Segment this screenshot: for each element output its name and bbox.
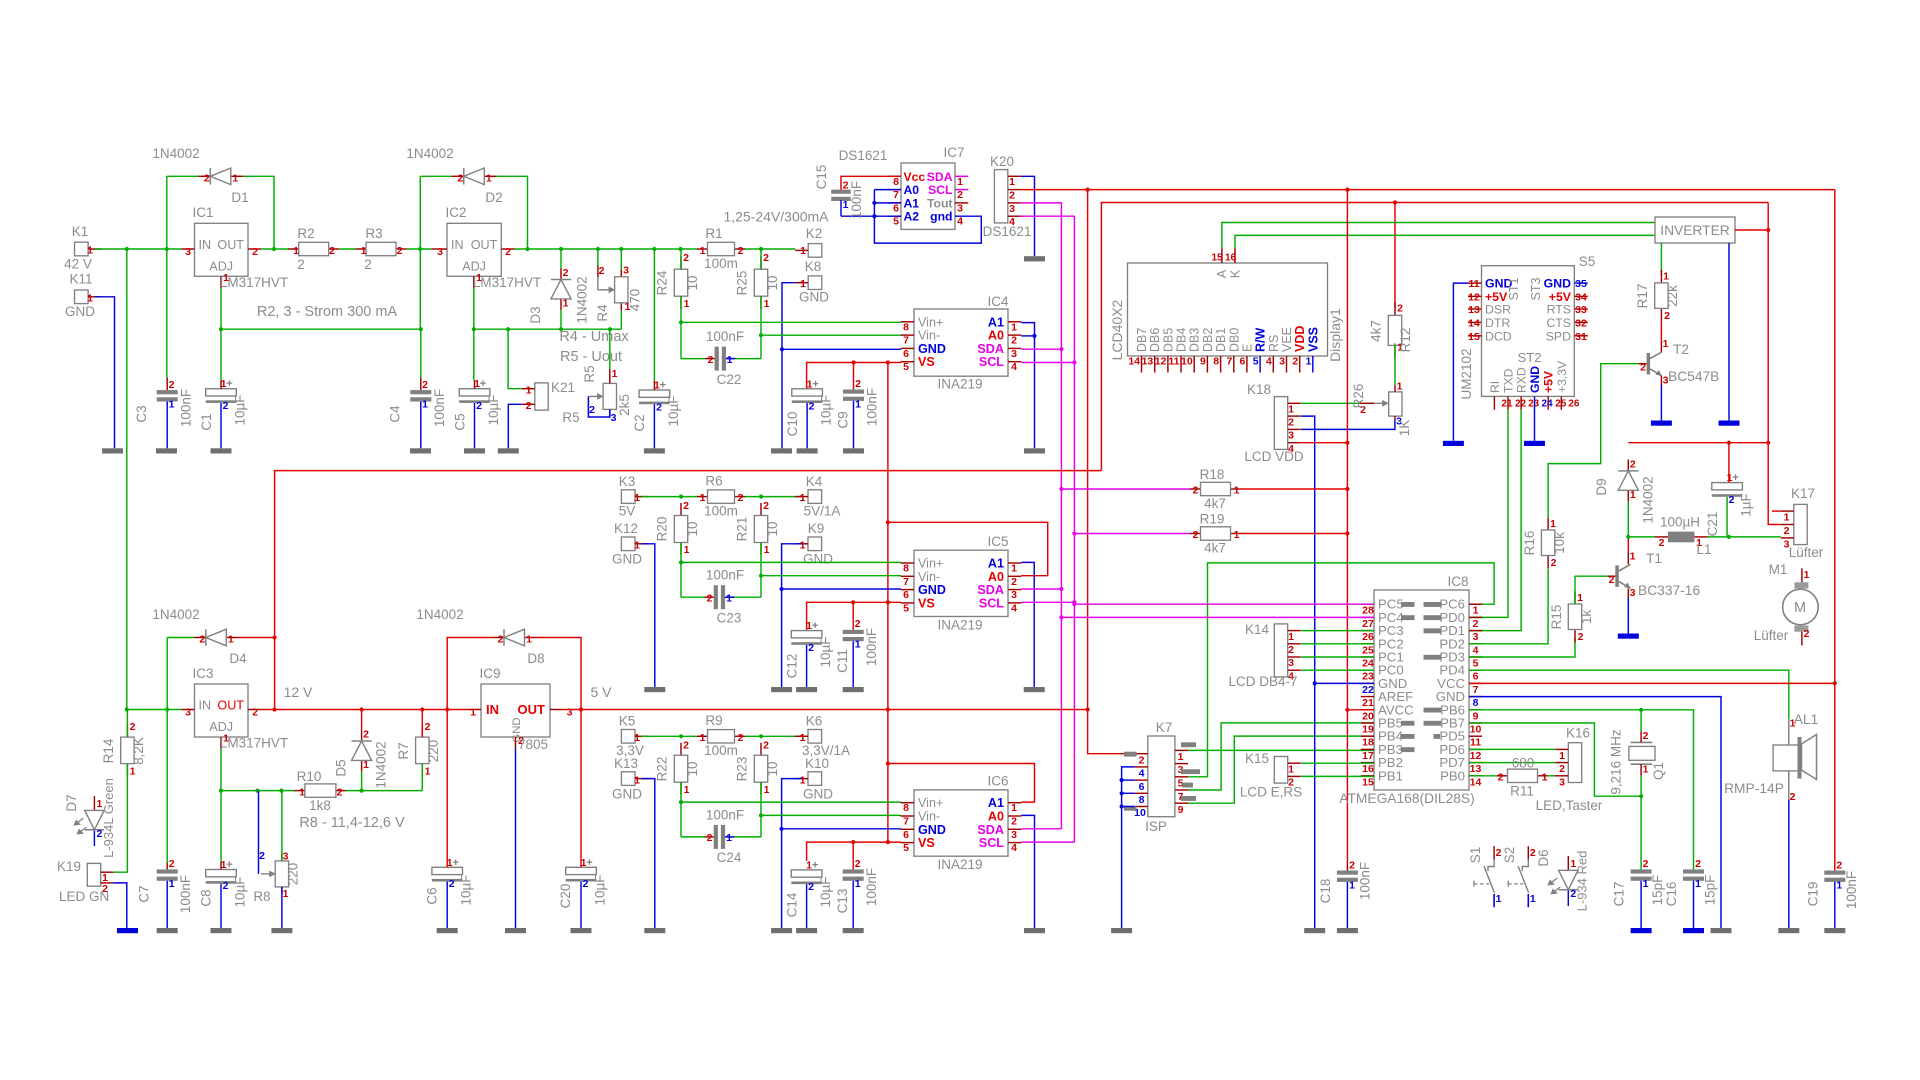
wire L1 to fan node (1628, 536, 1655, 538)
svg-text:Vin-: Vin- (918, 570, 940, 584)
ground bar under C3 (156, 448, 177, 453)
svg-text:M: M (1794, 600, 1806, 616)
ground bar IC4 address pins (1024, 448, 1045, 453)
svg-text:6: 6 (903, 348, 909, 360)
svg-text:RTS: RTS (1547, 303, 1571, 317)
node IC1 OUT junction (272, 247, 276, 251)
svg-text:GND: GND (612, 552, 642, 567)
ground bar under C4 (410, 448, 431, 453)
ground bar K7 (1111, 928, 1132, 933)
svg-text:17: 17 (1362, 750, 1374, 762)
svg-text:2: 2 (397, 245, 403, 257)
svg-text:1: 1 (855, 399, 861, 411)
svg-text:2: 2 (1011, 335, 1017, 347)
svg-text:1: 1 (957, 176, 963, 188)
svg-text:2: 2 (449, 878, 455, 890)
ground bar C17 blue (1631, 928, 1652, 933)
wire D4 C7 branch (166, 638, 168, 864)
svg-text:IC8: IC8 (1447, 574, 1468, 589)
svg-text:8: 8 (903, 563, 909, 575)
resistor R23 10 (735, 740, 781, 797)
svg-text:100nF: 100nF (1844, 871, 1859, 909)
svg-text:27: 27 (1362, 618, 1374, 630)
svg-text:A0: A0 (904, 183, 920, 197)
svg-text:10µF: 10µF (818, 636, 833, 667)
wire D2 left vertical / IC1 ADJ net (419, 176, 421, 329)
svg-text:12: 12 (1468, 291, 1480, 303)
node D1 anode-side junction (165, 247, 169, 251)
svg-text:Display1: Display1 (1327, 308, 1343, 362)
svg-text:L-934 Red: L-934 Red (1575, 851, 1590, 912)
svg-text:C19: C19 (1806, 882, 1821, 907)
svg-text:2: 2 (505, 246, 511, 258)
svg-text:TXD: TXD (1502, 368, 1516, 393)
svg-text:14: 14 (1468, 317, 1480, 329)
label R5 Uout (560, 349, 622, 365)
svg-text:Vin+: Vin+ (918, 557, 943, 571)
svg-text:2: 2 (1288, 417, 1294, 429)
svg-text:SDA: SDA (977, 823, 1004, 837)
svg-text:2: 2 (1193, 529, 1199, 541)
wire K14 pin2 to PC2 (1301, 643, 1374, 645)
svg-text:11: 11 (1168, 356, 1179, 368)
wire PC5 SCL to bus (1072, 602, 1374, 606)
svg-text:R8 - 11,4-12,6 V: R8 - 11,4-12,6 V (299, 815, 405, 831)
svg-text:1: 1 (425, 766, 431, 778)
svg-text:ST1: ST1 (1507, 277, 1521, 300)
potentiometer R8 220 voltage set (253, 791, 300, 904)
svg-text:4: 4 (957, 216, 963, 228)
svg-text:D5: D5 (334, 759, 349, 776)
svg-text:C14: C14 (785, 892, 800, 917)
svg-text:R14: R14 (101, 738, 116, 763)
wire K21 pin2 to ground (508, 404, 522, 448)
wire D1 anode to IC1 output (243, 176, 274, 249)
potentiometer R4 470 Umax (595, 249, 643, 322)
svg-text:PB1: PB1 (1378, 768, 1403, 783)
op-amp current monitor IC4 INA219 (901, 294, 1022, 392)
svg-text:1: 1 (684, 298, 690, 310)
svg-text:IC2: IC2 (445, 205, 466, 220)
wire IC7 A0 A1 A2 gnd tie (841, 190, 981, 244)
svg-text:100nF: 100nF (706, 568, 744, 583)
svg-text:GND: GND (612, 787, 642, 802)
svg-text:S2: S2 (1502, 847, 1517, 864)
svg-text:2: 2 (1496, 847, 1502, 859)
svg-text:3: 3 (1011, 829, 1017, 841)
wire PB7 to crystal (1469, 723, 1641, 796)
wire SCL bus vertical (1021, 216, 1075, 842)
capacitor C4 100nF (388, 378, 448, 428)
svg-text:10µF: 10µF (818, 876, 833, 907)
ground bar IC8 GND (1711, 928, 1732, 933)
svg-text:1: 1 (299, 786, 305, 798)
svg-text:3: 3 (1288, 430, 1294, 442)
wire VS row to IC6 (807, 840, 901, 861)
svg-text:C20: C20 (558, 884, 573, 909)
ground bar C19 (1824, 928, 1845, 933)
capacitor C20 10uF (558, 710, 608, 909)
svg-text:2: 2 (1193, 485, 1199, 497)
svg-text:S5: S5 (1579, 254, 1596, 269)
svg-text:DTR: DTR (1485, 316, 1510, 330)
svg-text:10µF: 10µF (233, 394, 248, 425)
regulator IC3 LM317HVT 12V (181, 666, 288, 751)
svg-text:100nF: 100nF (706, 808, 744, 823)
svg-text:K12: K12 (614, 521, 638, 536)
capacitor C17 15pF (1612, 858, 1666, 906)
svg-text:Lüfter: Lüfter (1789, 545, 1824, 560)
svg-text:10µF: 10µF (459, 874, 474, 905)
wire R17 to T2 collector (1660, 322, 1662, 342)
svg-text:1: 1 (764, 784, 770, 796)
svg-text:R19: R19 (1200, 512, 1225, 527)
svg-text:RMP-14P: RMP-14P (1724, 781, 1784, 796)
svg-text:R5: R5 (582, 365, 597, 382)
wire R19 to SCL bus (1072, 531, 1190, 535)
wire PD6 to K16 (1469, 748, 1555, 750)
wire K7 SCK to PB5 (1188, 723, 1374, 790)
wire K7 gnd pins to ground (1120, 767, 1135, 928)
svg-text:IC6: IC6 (987, 774, 1008, 789)
svg-text:C2: C2 (632, 414, 647, 431)
node 42V junction to IC3 feed (125, 247, 129, 251)
svg-text:2: 2 (957, 189, 963, 201)
wire K18 pin1 to R26 wiper (1301, 402, 1360, 404)
svg-text:R20: R20 (655, 517, 670, 542)
svg-text:C22: C22 (717, 372, 742, 387)
wire D4 anode to 12V (239, 637, 275, 639)
svg-text:R11: R11 (1510, 784, 1534, 799)
svg-text:1: 1 (1663, 271, 1669, 283)
svg-text:R22: R22 (655, 757, 670, 782)
wire IC3 ADJ line (219, 749, 295, 793)
svg-text:2: 2 (457, 173, 463, 185)
resistor R2 2ohm (288, 226, 339, 272)
module S5 UM2102 RS232 interface (1459, 254, 1595, 410)
svg-text:VSS: VSS (1306, 327, 1320, 352)
svg-text:1: 1 (1397, 381, 1403, 393)
wire R12 to R26 (1394, 343, 1396, 385)
svg-text:1: 1 (764, 298, 770, 310)
svg-text:6: 6 (1139, 781, 1145, 793)
svg-text:C12: C12 (785, 654, 800, 679)
svg-text:1N4002: 1N4002 (374, 741, 389, 788)
svg-text:2: 2 (422, 379, 428, 391)
wire D2 cathode to IC2 input (420, 175, 452, 177)
svg-text:100nF: 100nF (706, 329, 744, 344)
ground bar under C13 (843, 928, 864, 933)
wire +5V rail from K20 pin2 (1021, 188, 1835, 192)
diode D1 1N4002 over IC1 (152, 146, 248, 205)
resistor R18 4k7 SDA pullup (1190, 467, 1241, 511)
potentiometer R5 2k5 Uout (562, 329, 632, 425)
svg-text:1: 1 (855, 878, 861, 890)
wire PC4 SDA to bus (1059, 615, 1374, 619)
svg-text:IN: IN (451, 238, 464, 252)
wire C12 to ground (806, 645, 808, 687)
wire +5V branch vertical AVCC C18 (1345, 190, 1349, 864)
capacitor C22 100nF across sense (681, 329, 761, 387)
svg-text:5V/1A: 5V/1A (804, 504, 841, 519)
wire C14 to ground (806, 884, 808, 928)
svg-text:D8: D8 (527, 651, 544, 666)
svg-text:A1: A1 (988, 315, 1004, 329)
diode D8 1N4002 over IC9 (416, 607, 544, 666)
wire IC1 ADJ to IC2 IN node (219, 288, 420, 381)
capacitor C11 100nF (835, 602, 879, 673)
svg-text:C7: C7 (137, 885, 152, 902)
svg-text:1: 1 (526, 634, 532, 646)
svg-text:1: 1 (1643, 878, 1649, 890)
svg-text:R12: R12 (1398, 328, 1413, 353)
svg-text:3: 3 (1009, 203, 1015, 215)
connector K1 42V input (64, 224, 101, 272)
capacitor C8 10uF on ADJ (199, 859, 248, 908)
wire 42V rail K1 to IC1 IN (95, 248, 181, 250)
svg-text:OUT: OUT (518, 702, 546, 717)
temperature sensor IC7 DS1621 (839, 145, 969, 229)
svg-text:1: 1 (1630, 489, 1636, 501)
svg-text:R5 - Uout: R5 - Uout (560, 349, 622, 365)
svg-text:2: 2 (1530, 847, 1536, 859)
ground bar IC6 address (1024, 928, 1045, 933)
svg-text:6: 6 (903, 829, 909, 841)
node R4 top junction (619, 247, 623, 251)
svg-text:26: 26 (1568, 399, 1580, 410)
svg-text:1N4002: 1N4002 (152, 146, 199, 161)
svg-text:ATMEGA168(DIL28S): ATMEGA168(DIL28S) (1339, 791, 1474, 806)
svg-text:3: 3 (1011, 348, 1017, 360)
connector K3 5V in (619, 474, 648, 519)
resistor R3 2ohm (356, 226, 407, 272)
wire SDA bus vertical (1021, 203, 1062, 829)
svg-text:SDA: SDA (977, 342, 1004, 356)
wire VCC to +5V right (1469, 682, 1835, 684)
ground bar under C5 (464, 448, 485, 453)
wire IC6 A0 to ground (1021, 815, 1034, 928)
node IC2 IN junction (418, 247, 422, 251)
svg-text:SPD: SPD (1546, 329, 1571, 343)
svg-text:GND: GND (799, 290, 829, 305)
svg-text:2: 2 (1559, 763, 1565, 775)
capacitor C24 100nF across sense (681, 808, 761, 866)
svg-text:9,216 MHz: 9,216 MHz (1609, 729, 1624, 795)
wire D8 right to 5V out (537, 638, 581, 710)
svg-text:1: 1 (1643, 764, 1649, 776)
wire Q1 pin2 to PB6 (1640, 710, 1642, 731)
svg-text:GND: GND (918, 823, 946, 837)
wire C18 to ground (1346, 882, 1348, 928)
svg-text:1k8: 1k8 (309, 798, 331, 813)
wire T2 emitter to ground (1660, 385, 1662, 421)
svg-text:K4: K4 (806, 474, 823, 489)
svg-text:+5V: +5V (1542, 370, 1556, 393)
svg-text:1N4002: 1N4002 (416, 607, 463, 622)
svg-text:1: 1 (800, 540, 806, 552)
switch S2 (1502, 846, 1536, 907)
svg-text:680: 680 (1512, 756, 1535, 771)
wire R6 to K4 (745, 495, 802, 499)
wire 42V to IC3 IN (125, 707, 182, 711)
ground bar under R8 (271, 928, 292, 933)
svg-text:RI: RI (1488, 381, 1502, 393)
wire INVERTER right to 12V (1735, 229, 1768, 231)
svg-text:Vin+: Vin+ (918, 796, 943, 810)
ground bar S5 left (1443, 441, 1464, 446)
svg-text:OUT: OUT (217, 699, 244, 713)
svg-text:4: 4 (1011, 602, 1017, 614)
wire K15 pin2 to PB1 (1301, 775, 1374, 777)
wire K7 RESET to PC6 (1188, 563, 1494, 777)
connector K17 Luefter fan (1781, 486, 1824, 560)
svg-text:2: 2 (707, 832, 713, 844)
svg-text:10: 10 (685, 275, 700, 290)
svg-text:2: 2 (1349, 860, 1355, 872)
svg-text:DB2: DB2 (1201, 328, 1215, 352)
wire +5V vertical to ISP (1086, 190, 1135, 754)
wire GND net K18 to IC8 and ground (1313, 681, 1374, 928)
svg-text:7: 7 (1473, 684, 1479, 696)
wire K21 pin1 to ADJ net (508, 329, 522, 389)
svg-text:2: 2 (1729, 494, 1735, 506)
resistor R10 1k8 (294, 769, 346, 813)
svg-text:A1: A1 (904, 196, 920, 210)
svg-text:1: 1 (1473, 605, 1479, 617)
wire R22 bottom to Vin+ and C24 (679, 782, 683, 837)
svg-text:1: 1 (855, 639, 861, 651)
wire PD2 to R16 (1469, 569, 1548, 644)
svg-text:C13: C13 (835, 889, 850, 914)
resistor R9 100m shunt (697, 713, 745, 758)
capacitor C15 100nF for DS1621 (814, 165, 864, 220)
regulator IC9 7805 (468, 666, 573, 752)
svg-text:2: 2 (656, 402, 662, 414)
svg-text:DS1621: DS1621 (983, 224, 1032, 239)
svg-text:100m: 100m (704, 743, 738, 758)
svg-text:K5: K5 (619, 714, 636, 729)
svg-text:1: 1 (700, 492, 706, 504)
svg-text:13: 13 (1470, 763, 1482, 775)
label R2 R3 current set (257, 304, 398, 320)
svg-text:S1: S1 (1468, 847, 1483, 864)
svg-text:2: 2 (1664, 310, 1670, 322)
svg-text:R26: R26 (1351, 384, 1366, 409)
ground bar under C1 (211, 448, 232, 453)
module LCD40X2 Display1 (1109, 248, 1343, 373)
svg-text:SCL: SCL (979, 355, 1004, 369)
wire R7 bottom to ADJ net (421, 764, 423, 791)
svg-text:L-934L Green: L-934L Green (101, 778, 116, 858)
svg-text:6: 6 (1240, 356, 1246, 368)
svg-text:GND: GND (918, 342, 946, 356)
svg-text:K16: K16 (1566, 726, 1590, 741)
svg-text:2: 2 (1609, 574, 1615, 586)
wire C17 to ground (1640, 881, 1642, 928)
wire C9 to ground (853, 401, 855, 448)
svg-text:21: 21 (1501, 399, 1513, 410)
label R8 voltage range (299, 815, 405, 831)
svg-text:9: 9 (1178, 804, 1184, 816)
svg-text:15: 15 (1211, 253, 1223, 264)
svg-text:K: K (1229, 269, 1243, 278)
svg-text:2: 2 (1790, 791, 1796, 803)
svg-text:INVERTER: INVERTER (1660, 223, 1730, 238)
svg-text:SCL: SCL (979, 836, 1004, 850)
wire R24 bottom to Vin+ sense and C22 (679, 296, 683, 357)
ground bar under C9 (843, 448, 864, 453)
svg-text:1N4002: 1N4002 (152, 607, 199, 622)
svg-text:1: 1 (1530, 893, 1536, 905)
svg-text:R10: R10 (297, 769, 322, 784)
svg-text:10: 10 (685, 761, 700, 776)
svg-text:22: 22 (1362, 684, 1374, 696)
svg-text:42 V: 42 V (64, 257, 92, 272)
svg-text:1N4002: 1N4002 (406, 146, 453, 161)
label 5V (590, 684, 612, 700)
svg-text:R2: R2 (297, 226, 314, 241)
switch S1 (1468, 846, 1502, 907)
svg-text:1: 1 (700, 245, 706, 257)
svg-text:10: 10 (765, 761, 780, 776)
svg-text:LCD DB4-7: LCD DB4-7 (1228, 674, 1297, 689)
svg-text:100nF: 100nF (1358, 862, 1373, 900)
svg-text:10µF: 10µF (666, 395, 681, 426)
wire Vin- to IC5 (761, 575, 901, 577)
svg-text:2: 2 (708, 354, 714, 366)
capacitor C23 100nF across sense (681, 568, 761, 626)
svg-text:D1: D1 (231, 190, 248, 205)
svg-text:1: 1 (684, 544, 690, 556)
svg-text:4: 4 (1266, 356, 1272, 368)
svg-text:2: 2 (223, 400, 229, 412)
wire VS row to IC5 (807, 600, 901, 630)
wire C19 to ground (1834, 882, 1836, 928)
svg-text:C24: C24 (717, 850, 742, 865)
svg-text:1: 1 (1784, 512, 1790, 524)
wire K19 pin2 to ground (113, 883, 127, 928)
wire IC5 SDA to bus (1021, 587, 1063, 591)
svg-text:100nF: 100nF (178, 875, 193, 913)
node C2 junction (652, 247, 656, 251)
wire PD7 to K16 (1469, 762, 1555, 764)
svg-text:3: 3 (1011, 589, 1017, 601)
wire IC6 A1 to 5V (886, 761, 1035, 802)
svg-text:1: 1 (169, 399, 175, 411)
svg-text:12 V: 12 V (284, 684, 313, 700)
svg-text:2: 2 (1578, 631, 1584, 643)
svg-text:2: 2 (763, 252, 769, 264)
svg-text:2: 2 (589, 404, 595, 416)
svg-text:3: 3 (1279, 356, 1285, 368)
svg-text:LED GN: LED GN (59, 889, 109, 904)
svg-text:SCL: SCL (979, 596, 1004, 610)
svg-text:100m: 100m (704, 256, 738, 271)
svg-text:2: 2 (1397, 303, 1403, 315)
wire K3 to R6 (641, 495, 697, 499)
wire +5V right vertical to VCC and C19 (1833, 190, 1837, 871)
svg-text:1: 1 (726, 832, 732, 844)
resistor R17 22k (1635, 270, 1680, 322)
svg-text:C17: C17 (1612, 882, 1627, 907)
svg-text:R/W: R/W (1254, 328, 1268, 353)
svg-text:2: 2 (297, 257, 305, 272)
svg-text:1: 1 (1663, 338, 1669, 350)
wire K11 to ground (95, 297, 115, 449)
svg-text:Tout: Tout (927, 196, 953, 210)
svg-text:220: 220 (426, 740, 441, 763)
svg-text:LM317HVT: LM317HVT (220, 736, 288, 751)
